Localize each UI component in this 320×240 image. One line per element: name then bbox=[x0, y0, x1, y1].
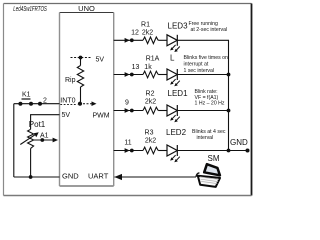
node bus-row2 bbox=[227, 73, 231, 77]
wire K1 row to INT0 bbox=[14, 103, 60, 105]
wire LED3 to bus bbox=[177, 39, 229, 41]
svg-text:A1: A1 bbox=[40, 132, 49, 139]
svg-text:GND: GND bbox=[230, 138, 248, 147]
LED3 bbox=[167, 35, 177, 46]
svg-text:PWM: PWM bbox=[93, 113, 110, 120]
svg-text:R1A: R1A bbox=[146, 56, 160, 63]
wire 5V to pot top bbox=[31, 115, 60, 130]
resistor Rip (internal pullup) bbox=[65, 58, 84, 104]
svg-text:LED1: LED1 bbox=[168, 89, 189, 98]
svg-text:R2: R2 bbox=[146, 90, 155, 97]
LED2 bbox=[167, 145, 177, 156]
MCU box U1 (UNO) bbox=[60, 13, 114, 187]
svg-text:R3: R3 bbox=[145, 130, 154, 137]
node 5V internal dashed bbox=[71, 56, 105, 64]
svg-text:R1: R1 bbox=[141, 22, 150, 29]
svg-text:UNO: UNO bbox=[78, 4, 95, 13]
switch K1 bbox=[18, 91, 42, 105]
svg-text:2k2: 2k2 bbox=[145, 98, 156, 105]
resistor R3 bbox=[143, 147, 158, 154]
svg-text:interrupt at: interrupt at bbox=[184, 62, 209, 68]
wire pin12 bbox=[114, 39, 143, 41]
wire GND row left bbox=[14, 176, 60, 178]
svg-text:GND: GND bbox=[62, 172, 79, 181]
svg-text:interval: interval bbox=[197, 135, 214, 141]
wire pin11 bbox=[114, 150, 143, 152]
wire pin13 bbox=[114, 74, 143, 76]
svg-text:Led4Sw1FRTOS: Led4Sw1FRTOS bbox=[13, 4, 47, 13]
node INT0 junction + dashed arrow bbox=[60, 101, 96, 106]
svg-text:1k: 1k bbox=[144, 64, 152, 71]
wire GND stub bbox=[229, 150, 248, 152]
node bus-row4 bbox=[227, 149, 231, 153]
svg-text:UART: UART bbox=[88, 172, 109, 181]
svg-text:2: 2 bbox=[43, 98, 47, 105]
svg-text:12: 12 bbox=[131, 30, 139, 37]
svg-text:1 sec interval: 1 sec interval bbox=[184, 68, 215, 74]
svg-text:K1: K1 bbox=[22, 91, 31, 98]
svg-text:L: L bbox=[170, 54, 175, 63]
right bus vertical bbox=[228, 40, 230, 150]
svg-text:LED2: LED2 bbox=[166, 128, 187, 137]
resistor R1 bbox=[143, 37, 158, 44]
svg-text:13: 13 bbox=[132, 64, 140, 71]
svg-text:Blinks five times on: Blinks five times on bbox=[184, 55, 229, 61]
resistor R2 bbox=[143, 107, 158, 114]
svg-text:5V: 5V bbox=[62, 112, 71, 119]
svg-text:1 Hz – 20 Hz: 1 Hz – 20 Hz bbox=[195, 100, 225, 106]
svg-text:SM: SM bbox=[208, 154, 220, 163]
svg-text:2k2: 2k2 bbox=[142, 30, 153, 37]
LED1 bbox=[167, 105, 177, 116]
svg-text:5V: 5V bbox=[96, 57, 105, 64]
svg-text:at 2-sec interval: at 2-sec interval bbox=[191, 27, 228, 33]
resistor R1A bbox=[143, 71, 158, 78]
border frame bbox=[4, 4, 252, 196]
wire left vertical bbox=[13, 104, 15, 177]
wire wiper A1 to box bbox=[34, 132, 58, 142]
svg-text:INT0: INT0 bbox=[60, 98, 75, 105]
serial monitor SM laptop bbox=[196, 154, 220, 187]
svg-text:LED3: LED3 bbox=[168, 22, 189, 31]
LED L bbox=[167, 69, 177, 80]
node pot-gnd junction bbox=[29, 175, 33, 179]
node GND terminal bbox=[246, 149, 250, 153]
wire pin9 bbox=[114, 110, 143, 112]
wire L to bus bbox=[177, 74, 228, 76]
wire LED2 to bus bbox=[177, 150, 228, 152]
node bus-row3 bbox=[227, 109, 231, 113]
svg-text:Pot1: Pot1 bbox=[29, 120, 46, 129]
wire LED1 to bus bbox=[177, 110, 228, 112]
svg-text:Rip: Rip bbox=[65, 77, 76, 84]
svg-text:2k2: 2k2 bbox=[145, 138, 156, 145]
wire UART to laptop bbox=[114, 174, 196, 180]
svg-text:9: 9 bbox=[125, 99, 129, 106]
svg-text:11: 11 bbox=[124, 140, 131, 147]
potentiometer Pot1 bbox=[20, 120, 46, 177]
